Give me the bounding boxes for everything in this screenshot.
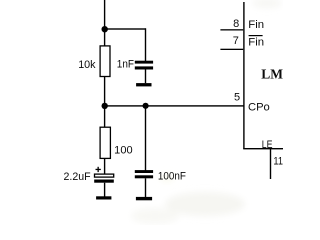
svg-text:2.2uF: 2.2uF [64,171,91,183]
svg-text:1nF: 1nF [117,59,134,71]
svg-text:CPo: CPo [248,101,270,113]
svg-text:100nF: 100nF [158,170,186,182]
svg-text:LM: LM [261,67,283,82]
svg-text:Fin: Fin [248,19,264,31]
svg-text:Fin: Fin [248,36,264,48]
svg-text:100: 100 [114,145,132,157]
svg-text:8: 8 [233,18,239,30]
svg-text:11: 11 [273,156,283,168]
svg-text:LE: LE [262,139,273,151]
svg-text:7: 7 [233,35,239,47]
svg-text:5: 5 [234,92,240,104]
svg-text:10k: 10k [78,59,96,71]
